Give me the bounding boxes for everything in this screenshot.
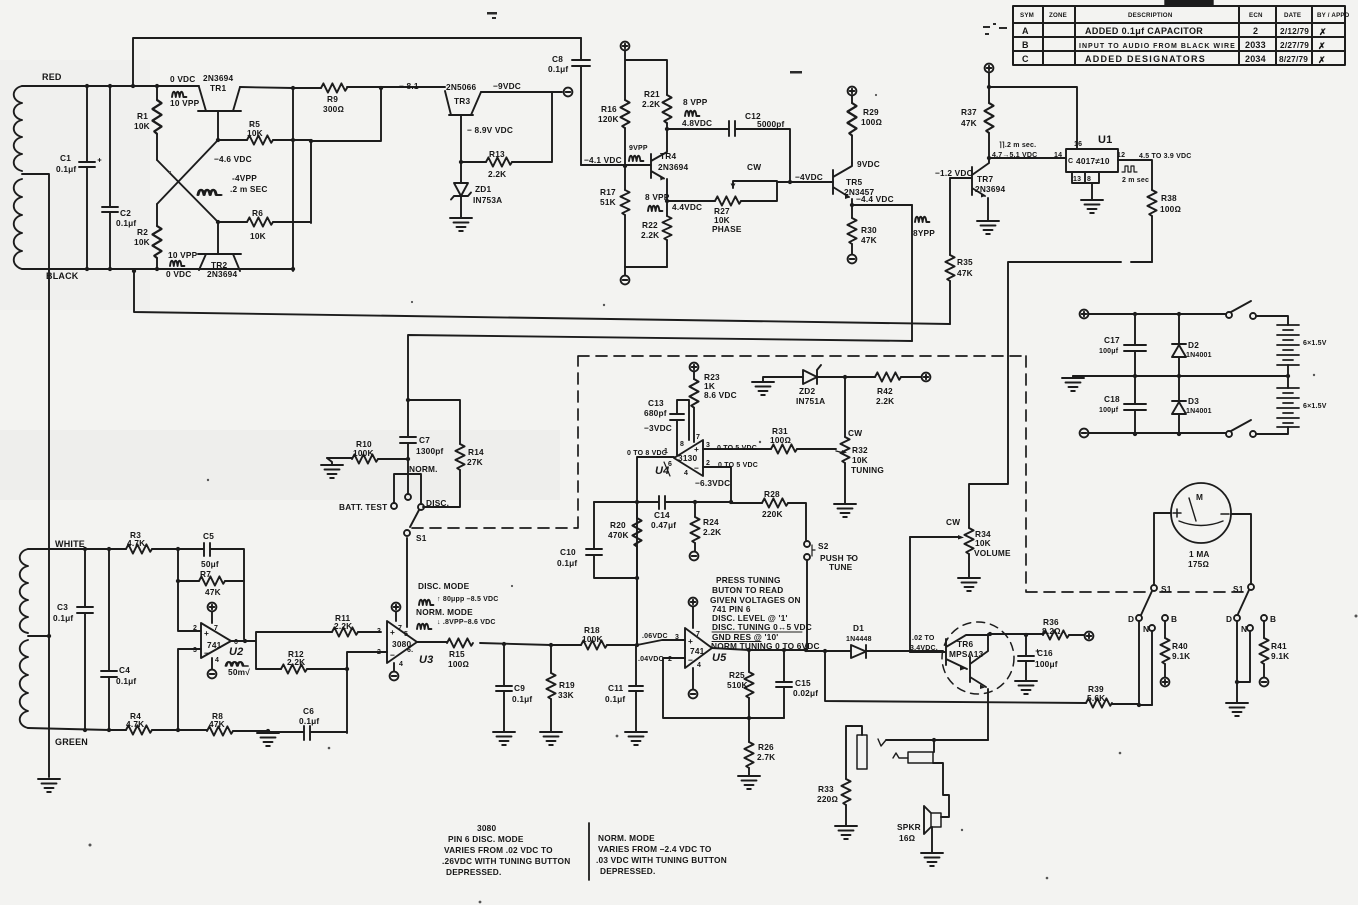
svg-text:PRESS TUNING: PRESS TUNING bbox=[716, 575, 781, 585]
svg-text:0.1μf: 0.1μf bbox=[512, 694, 532, 704]
svg-text:8/27/79: 8/27/79 bbox=[1279, 54, 1308, 64]
wire U4 pin3 bbox=[703, 448, 836, 450]
svg-text:CW: CW bbox=[747, 162, 761, 172]
wire R38 bottom to R34 bbox=[969, 262, 1152, 528]
transistor TR5 bbox=[833, 163, 852, 205]
transistor TR2 bbox=[198, 222, 241, 271]
svg-text:.02 TO: .02 TO bbox=[912, 635, 935, 642]
svg-text:2.2K: 2.2K bbox=[334, 621, 352, 631]
svg-text:3080: 3080 bbox=[477, 823, 496, 833]
svg-text:GREEN: GREEN bbox=[55, 737, 88, 747]
svg-text:100Ω: 100Ω bbox=[448, 659, 469, 669]
svg-text:NORM. MODE: NORM. MODE bbox=[598, 833, 655, 843]
svg-text:C3: C3 bbox=[57, 602, 68, 612]
svg-text:0 VDC: 0 VDC bbox=[170, 74, 195, 84]
transistor TR1 bbox=[198, 87, 241, 140]
svg-text:4.7K: 4.7K bbox=[126, 719, 144, 729]
svg-text:0.1μf: 0.1μf bbox=[557, 558, 577, 568]
wire S1 left contacts bbox=[1139, 621, 1152, 705]
svg-text:DISC. TUNING 0↔5 VDC: DISC. TUNING 0↔5 VDC bbox=[712, 622, 812, 632]
svg-text:C: C bbox=[1068, 158, 1073, 165]
terminal plus (R37 top) bbox=[985, 64, 994, 73]
wire -4VDC node bbox=[777, 181, 833, 183]
ground (R32) bbox=[834, 504, 856, 517]
jack tip contact bbox=[878, 739, 886, 746]
svg-text:50m√: 50m√ bbox=[228, 667, 250, 677]
svg-text:220K: 220K bbox=[762, 509, 783, 519]
svg-text:1 MA: 1 MA bbox=[1189, 549, 1210, 559]
svg-text:2.2K: 2.2K bbox=[641, 230, 659, 240]
svg-text:R38: R38 bbox=[1161, 193, 1177, 203]
svg-text:10K: 10K bbox=[852, 455, 868, 465]
capacitor C8 bbox=[572, 38, 590, 165]
svg-text:2.2K: 2.2K bbox=[876, 396, 894, 406]
meter M bbox=[1171, 483, 1231, 543]
svg-text:−9VDC: −9VDC bbox=[493, 81, 521, 91]
svg-text:16: 16 bbox=[1074, 141, 1082, 148]
jack NC contact to speaker bbox=[933, 740, 935, 752]
svg-text:C10: C10 bbox=[560, 547, 576, 557]
svg-text:50μf: 50μf bbox=[201, 559, 219, 569]
terminal plus (R16/R21 top) bbox=[621, 42, 630, 51]
wire U4 pin2 bbox=[703, 467, 731, 502]
svg-text:2: 2 bbox=[377, 649, 381, 656]
ground (C9) bbox=[493, 732, 515, 745]
wire meter leads bbox=[1154, 513, 1251, 585]
svg-text:+: + bbox=[694, 444, 699, 454]
wire vertical V1 bbox=[292, 88, 294, 271]
svg-text:2N5066: 2N5066 bbox=[446, 82, 476, 92]
svg-text:R30: R30 bbox=[861, 225, 877, 235]
wire R15/R18 bus bbox=[480, 502, 637, 645]
svg-text:R41: R41 bbox=[1271, 641, 1287, 651]
resistor R31 bbox=[771, 444, 797, 453]
resistor R28 bbox=[731, 503, 806, 540]
terminal minus (U3 pin4) bbox=[393, 663, 395, 671]
svg-text:16Ω: 16Ω bbox=[899, 833, 916, 843]
svg-text:− 8.9V VDC: − 8.9V VDC bbox=[467, 125, 513, 135]
svg-text:S1: S1 bbox=[1233, 584, 1244, 594]
svg-text:47K: 47K bbox=[957, 268, 973, 278]
svg-text:100Ω: 100Ω bbox=[1160, 204, 1181, 214]
svg-text:C13: C13 bbox=[648, 398, 664, 408]
resistor R22 bbox=[666, 201, 668, 216]
svg-text:CW: CW bbox=[848, 428, 862, 438]
capacitor C4 bbox=[101, 549, 117, 730]
svg-text:R26: R26 bbox=[758, 742, 774, 752]
potentiometer R27 bbox=[667, 181, 777, 201]
resistor R26 bbox=[748, 718, 750, 742]
resistor R1 bbox=[156, 86, 158, 160]
terminal minus (R24) bbox=[690, 552, 699, 561]
svg-text:MPSA13: MPSA13 bbox=[949, 649, 984, 659]
resistor R16 bbox=[620, 100, 629, 128]
svg-text:3: 3 bbox=[675, 634, 679, 641]
svg-text:33K: 33K bbox=[558, 690, 574, 700]
capacitor C5 bbox=[178, 543, 244, 581]
svg-text:R33: R33 bbox=[818, 784, 834, 794]
op-amp U3 3080 bbox=[387, 621, 417, 663]
svg-text:100Ω: 100Ω bbox=[770, 435, 791, 445]
svg-text:B: B bbox=[1022, 40, 1029, 50]
svg-text:1: 1 bbox=[664, 448, 668, 455]
ground (speaker) bbox=[921, 853, 943, 866]
svg-text:C: C bbox=[1022, 54, 1029, 64]
svg-text:−: − bbox=[390, 650, 395, 660]
diode D2 bbox=[1172, 314, 1186, 376]
svg-text:10 VPP: 10 VPP bbox=[170, 98, 200, 108]
resistor R11 bbox=[332, 627, 358, 636]
svg-text:3.4VDC.: 3.4VDC. bbox=[910, 645, 938, 652]
capacitor C6 bbox=[268, 726, 347, 740]
terminal minus (battery bottom) bbox=[1080, 429, 1089, 438]
terminal plus (U5 pin7) bbox=[692, 607, 694, 628]
svg-text:DEPRESSED.: DEPRESSED. bbox=[446, 867, 501, 877]
svg-text:175Ω: 175Ω bbox=[1188, 559, 1209, 569]
svg-text:NORM. MODE: NORM. MODE bbox=[416, 607, 473, 617]
wire R5 to rail bbox=[311, 88, 381, 141]
wire TR6 emitter to jack bbox=[886, 739, 988, 741]
battery B2 6x1.5V bbox=[1277, 388, 1299, 427]
svg-text:NORM.: NORM. bbox=[409, 464, 438, 474]
svg-text:R37: R37 bbox=[961, 107, 977, 117]
svg-text:.04VDC: .04VDC bbox=[638, 656, 664, 663]
svg-text:100μf: 100μf bbox=[1035, 659, 1058, 669]
svg-text:R21: R21 bbox=[644, 89, 660, 99]
svg-text:10K: 10K bbox=[247, 128, 263, 138]
svg-text:−: − bbox=[688, 655, 693, 665]
svg-text:0 TO 5 VDC: 0 TO 5 VDC bbox=[718, 462, 758, 469]
node RED rail bbox=[22, 85, 199, 87]
dashed enclosure S1 gang line bbox=[412, 356, 1244, 592]
capacitor C2 bbox=[102, 86, 118, 269]
capacitor C14 / feedback line bbox=[594, 496, 731, 509]
resistor R20 bbox=[632, 518, 641, 547]
svg-text:C2: C2 bbox=[120, 208, 131, 218]
note norm mode bbox=[596, 833, 727, 876]
svg-text:680pf: 680pf bbox=[644, 408, 667, 418]
speaker SPKR bbox=[924, 806, 931, 834]
svg-text:R16: R16 bbox=[601, 104, 617, 114]
transistor TR6 darlington bbox=[942, 622, 1014, 694]
transformer T2 bbox=[20, 549, 28, 728]
zener ZD2 bbox=[803, 365, 821, 384]
svg-text:8YPP: 8YPP bbox=[913, 228, 935, 238]
svg-text:100μf: 100μf bbox=[1099, 407, 1119, 414]
wire -4.1VDC node bbox=[581, 164, 651, 166]
svg-text:A: A bbox=[1022, 26, 1029, 36]
svg-text:100K: 100K bbox=[582, 634, 603, 644]
svg-text:2034: 2034 bbox=[1245, 54, 1266, 64]
svg-text:D: D bbox=[1128, 614, 1134, 624]
svg-text:N: N bbox=[1143, 624, 1149, 634]
wire R17/R22 bottom bbox=[625, 266, 667, 268]
svg-text:TR6: TR6 bbox=[957, 639, 973, 649]
ground (TR7 emitter) bbox=[977, 221, 999, 234]
svg-text:C11: C11 bbox=[608, 683, 624, 693]
svg-text:VOLUME: VOLUME bbox=[974, 548, 1011, 558]
svg-text:R29: R29 bbox=[863, 107, 879, 117]
svg-text:C4: C4 bbox=[119, 665, 130, 675]
svg-text:7: 7 bbox=[398, 625, 402, 632]
note press tuning bbox=[710, 575, 820, 651]
svg-text:C17: C17 bbox=[1104, 335, 1120, 345]
svg-text:✗: ✗ bbox=[1318, 55, 1326, 65]
svg-text:1N4001: 1N4001 bbox=[1186, 352, 1212, 359]
svg-text:51K: 51K bbox=[600, 197, 616, 207]
terminal plus (R40) bbox=[1161, 678, 1170, 687]
ground (R26) bbox=[738, 776, 760, 789]
node -9VDC wire bbox=[481, 91, 562, 93]
resistor R4 bbox=[126, 725, 152, 734]
svg-text:.06VDC: .06VDC bbox=[642, 633, 668, 640]
svg-text:C18: C18 bbox=[1104, 394, 1120, 404]
svg-text:PIN 6 DISC. MODE: PIN 6 DISC. MODE bbox=[448, 834, 524, 844]
svg-text:0 VDC: 0 VDC bbox=[166, 269, 191, 279]
svg-text:10K: 10K bbox=[134, 237, 150, 247]
terminal plus (R23 top) bbox=[690, 363, 699, 372]
svg-text:BLACK: BLACK bbox=[46, 271, 79, 281]
ground (S1 right) bbox=[1226, 703, 1248, 716]
switch S (battery +) bbox=[1226, 312, 1232, 318]
svg-text:100K: 100K bbox=[353, 448, 374, 458]
svg-text:BY / APPD: BY / APPD bbox=[1317, 12, 1350, 19]
svg-text:R42: R42 bbox=[877, 386, 893, 396]
svg-text:PHASE: PHASE bbox=[712, 224, 742, 234]
resistor R40 bbox=[1164, 621, 1166, 638]
terminal plus (U2 pin7) bbox=[211, 612, 213, 623]
wire T2 center tap bbox=[28, 635, 49, 637]
svg-text:2N3694: 2N3694 bbox=[658, 162, 688, 172]
note 3080 disc mode bbox=[442, 823, 570, 877]
svg-text:0.1μf: 0.1μf bbox=[299, 716, 319, 726]
label 8YPP bbox=[915, 217, 929, 222]
svg-text:IN751A: IN751A bbox=[796, 396, 825, 406]
svg-text:R28: R28 bbox=[764, 489, 780, 499]
svg-text:2: 2 bbox=[1253, 26, 1258, 36]
svg-text:R20: R20 bbox=[610, 520, 626, 530]
svg-text:3: 3 bbox=[193, 647, 197, 654]
transistor TR3 bbox=[445, 91, 481, 162]
resistor R24 bbox=[694, 502, 696, 517]
diode D3 bbox=[1172, 376, 1186, 434]
terminal plus (battery top) bbox=[1080, 310, 1089, 319]
transistor TR7 bbox=[950, 158, 989, 221]
svg-text:R19: R19 bbox=[559, 680, 575, 690]
ground (R19) bbox=[540, 732, 562, 745]
svg-text:6×1.5V: 6×1.5V bbox=[1303, 403, 1327, 410]
svg-text:4: 4 bbox=[684, 470, 688, 477]
svg-text:−4.4 VDC: −4.4 VDC bbox=[856, 194, 894, 204]
capacitor C10 bbox=[586, 502, 637, 578]
svg-text:4017≠10: 4017≠10 bbox=[1076, 156, 1110, 166]
svg-text:R1: R1 bbox=[137, 111, 148, 121]
jack sleeve / R33 bbox=[846, 726, 862, 779]
svg-text:D1: D1 bbox=[853, 623, 864, 633]
svg-text:300Ω: 300Ω bbox=[323, 104, 344, 114]
svg-text:S1: S1 bbox=[1161, 584, 1172, 594]
wire long bus 1 bbox=[134, 271, 950, 324]
svg-text:↑ 80μpp –8.5 VDC: ↑ 80μpp –8.5 VDC bbox=[437, 596, 499, 603]
svg-text:C5: C5 bbox=[203, 531, 214, 541]
wire battery bottom rail bbox=[1088, 432, 1226, 434]
svg-text:9VDC: 9VDC bbox=[857, 159, 880, 169]
svg-text:S1: S1 bbox=[416, 533, 427, 543]
IC U1 4017 bbox=[1066, 149, 1118, 172]
svg-text:↓ .8VPP–8.6 VDC: ↓ .8VPP–8.6 VDC bbox=[437, 619, 496, 626]
svg-text:10K: 10K bbox=[134, 121, 150, 131]
svg-text:510K: 510K bbox=[727, 680, 748, 690]
svg-text:R2: R2 bbox=[137, 227, 148, 237]
resistor R12 bbox=[281, 664, 307, 673]
svg-text:4.7→5.1 VDC: 4.7→5.1 VDC bbox=[992, 152, 1037, 159]
svg-text:TR7: TR7 bbox=[977, 174, 993, 184]
svg-text:WHITE: WHITE bbox=[55, 539, 85, 549]
svg-text:R25: R25 bbox=[729, 670, 745, 680]
svg-text:2: 2 bbox=[193, 625, 197, 632]
resistor R41 bbox=[1263, 621, 1265, 638]
node BLACK rail bbox=[22, 268, 293, 270]
revision table bbox=[1013, 0, 1345, 65]
resistor R21 bbox=[662, 95, 671, 123]
svg-text:8 VPP: 8 VPP bbox=[683, 97, 708, 107]
switch S1 meter right bbox=[1248, 584, 1254, 590]
terminal minus (R41) bbox=[1260, 678, 1269, 687]
svg-text:M: M bbox=[1196, 492, 1203, 502]
wire cross-couple diag1 bbox=[157, 160, 218, 222]
svg-text:VARIES FROM .02 VDC TO: VARIES FROM .02 VDC TO bbox=[444, 845, 553, 855]
svg-text:N: N bbox=[1241, 624, 1247, 634]
wire U4 output bbox=[637, 457, 674, 502]
svg-text:B: B bbox=[1270, 614, 1276, 624]
svg-text:DEPRESSED.: DEPRESSED. bbox=[600, 866, 655, 876]
wire U5 pin2 + feedback bbox=[663, 658, 784, 718]
svg-text:0.02μf: 0.02μf bbox=[793, 688, 818, 698]
resistor R36 bbox=[1043, 630, 1069, 639]
svg-text:741: 741 bbox=[690, 646, 705, 656]
terminal plus (U3 pin7) bbox=[395, 612, 397, 621]
svg-text:C14: C14 bbox=[654, 510, 670, 520]
capacitor C18 bbox=[1124, 376, 1146, 434]
resistor R8 bbox=[178, 729, 207, 731]
transistor TR4 bbox=[651, 129, 667, 201]
wire TR5 emitter down bbox=[911, 205, 913, 341]
svg-text:9.1K: 9.1K bbox=[1271, 651, 1289, 661]
svg-text:47K: 47K bbox=[205, 587, 221, 597]
svg-text:D2: D2 bbox=[1188, 340, 1199, 350]
svg-text:47K: 47K bbox=[209, 719, 225, 729]
label 50mv bbox=[226, 662, 248, 666]
svg-text:B: B bbox=[1171, 614, 1177, 624]
svg-text:14: 14 bbox=[1054, 152, 1062, 159]
wire battery top rail bbox=[1088, 313, 1226, 315]
svg-text:INPUT TO AUDIO FROM BLACK WI: INPUT TO AUDIO FROM BLACK WIRE bbox=[1079, 43, 1235, 50]
wire R37 top / U1 pin16 bbox=[989, 72, 1077, 149]
wire U5 output bbox=[712, 648, 806, 650]
resistor R39 bbox=[1086, 698, 1112, 707]
svg-text:−4VDC: −4VDC bbox=[795, 172, 823, 182]
svg-text:ADDED 0.1μf CAPACITOR: ADDED 0.1μf CAPACITOR bbox=[1085, 26, 1203, 36]
node GREEN rail bbox=[28, 728, 126, 730]
resistor R37 bbox=[984, 103, 993, 133]
svg-text:0.47μf: 0.47μf bbox=[651, 520, 676, 530]
wire U2 pin3 bbox=[178, 649, 201, 730]
svg-text:4.4VDC: 4.4VDC bbox=[672, 202, 702, 212]
svg-text:−: − bbox=[694, 463, 699, 473]
capacitor C9 bbox=[496, 644, 512, 732]
svg-text:U2: U2 bbox=[229, 646, 243, 658]
svg-text:0.1μf: 0.1μf bbox=[116, 218, 136, 228]
svg-text:DISC. MODE: DISC. MODE bbox=[418, 581, 470, 591]
svg-text:TUNING: TUNING bbox=[851, 465, 884, 475]
svg-text:+: + bbox=[688, 636, 693, 646]
svg-text:47K: 47K bbox=[861, 235, 877, 245]
wire U2 pin2 bbox=[178, 581, 201, 631]
svg-text:8: 8 bbox=[1087, 176, 1091, 183]
svg-text:2N3694: 2N3694 bbox=[207, 269, 237, 279]
svg-text:.2 m SEC: .2 m SEC bbox=[230, 184, 268, 194]
svg-text:1N4001: 1N4001 bbox=[1186, 408, 1212, 415]
svg-text:S2: S2 bbox=[818, 541, 829, 551]
svg-text:C8: C8 bbox=[552, 54, 563, 64]
op-amp U4 3130 bbox=[674, 440, 703, 476]
node 8VPP / TR4 emitter bbox=[665, 199, 669, 203]
svg-text:C9: C9 bbox=[514, 683, 525, 693]
svg-text:C15: C15 bbox=[795, 678, 811, 688]
svg-text:ADDED DESIGNATORS: ADDED DESIGNATORS bbox=[1085, 54, 1205, 64]
resistor R30 bbox=[851, 205, 853, 218]
svg-text:⌉⌉.2 m sec.: ⌉⌉.2 m sec. bbox=[999, 141, 1036, 149]
svg-text:8 VPP: 8 VPP bbox=[645, 192, 670, 202]
switch S2 PUSH TO TUNE bbox=[804, 541, 810, 547]
terminal minus (U2 pin4) bbox=[211, 658, 213, 669]
svg-text:0.1μf: 0.1μf bbox=[116, 676, 136, 686]
resistor R19 bbox=[550, 645, 552, 673]
ground (R34) bbox=[958, 578, 980, 591]
svg-text:741: 741 bbox=[207, 640, 222, 650]
svg-text:.03 VDC WITH TUNING BUTTON: .03 VDC WITH TUNING BUTTON bbox=[596, 855, 727, 865]
svg-text:BUTON TO READ: BUTON TO READ bbox=[712, 585, 783, 595]
ground (C16) bbox=[1015, 681, 1037, 694]
svg-text:✗: ✗ bbox=[1318, 41, 1326, 51]
svg-text:D: D bbox=[1226, 614, 1232, 624]
svg-text:8.2Ω: 8.2Ω bbox=[1042, 626, 1061, 636]
svg-text:TR3: TR3 bbox=[454, 96, 470, 106]
svg-text:2N3694: 2N3694 bbox=[975, 184, 1005, 194]
svg-text:C1: C1 bbox=[60, 153, 71, 163]
svg-text:100Ω: 100Ω bbox=[861, 117, 882, 127]
resistor R18 bbox=[581, 640, 607, 649]
wire ZD2 to R42 bbox=[817, 376, 921, 378]
stray scan marks bbox=[487, 12, 1007, 74]
svg-text:R24: R24 bbox=[703, 517, 719, 527]
svg-text:2.7K: 2.7K bbox=[757, 752, 775, 762]
svg-text:1N4448: 1N4448 bbox=[846, 636, 872, 643]
svg-text:6: 6 bbox=[668, 461, 672, 468]
wire long bus 2 bbox=[408, 335, 912, 400]
svg-text:2.2K: 2.2K bbox=[703, 527, 721, 537]
resistor R14 bbox=[408, 400, 460, 444]
wire R16/R21 top bbox=[625, 50, 667, 100]
battery B1 6x1.5V bbox=[1277, 325, 1299, 365]
resistor R29 bbox=[851, 95, 853, 103]
svg-text:9.1K: 9.1K bbox=[1172, 651, 1190, 661]
svg-text:10K: 10K bbox=[250, 231, 266, 241]
terminal plus (R29 top) bbox=[848, 87, 857, 96]
svg-text:DATE: DATE bbox=[1284, 12, 1301, 19]
svg-text:470K: 470K bbox=[608, 530, 629, 540]
wire S1 to U3 pin5 bbox=[406, 538, 408, 627]
